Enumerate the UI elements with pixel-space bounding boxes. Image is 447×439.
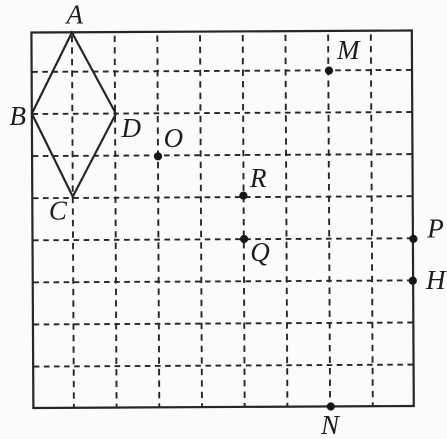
- svg-text:Q: Q: [250, 237, 270, 267]
- svg-text:R: R: [249, 163, 267, 193]
- svg-text:B: B: [10, 101, 27, 131]
- svg-text:M: M: [336, 35, 361, 65]
- svg-text:A: A: [64, 0, 83, 30]
- svg-text:O: O: [164, 123, 184, 153]
- svg-text:N: N: [320, 410, 341, 439]
- svg-text:C: C: [49, 195, 68, 225]
- svg-text:P: P: [426, 214, 444, 244]
- svg-text:H: H: [425, 265, 447, 295]
- svg-text:D: D: [121, 113, 142, 143]
